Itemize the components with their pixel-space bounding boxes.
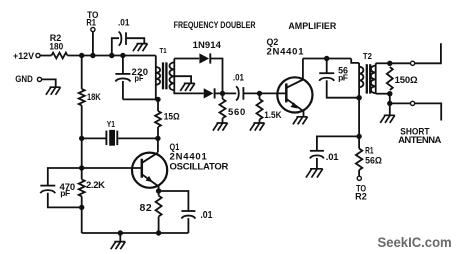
svg-text:OSCILLATOR: OSCILLATOR: [170, 162, 229, 173]
svg-text:FREQUENCY DOUBLER: FREQUENCY DOUBLER: [174, 20, 256, 31]
svg-text:2.2K: 2.2K: [86, 180, 105, 191]
svg-text:1N914: 1N914: [193, 40, 222, 51]
svg-text:AMPLIFIER: AMPLIFIER: [288, 21, 336, 32]
svg-text:.01: .01: [118, 17, 130, 28]
svg-text:.01: .01: [326, 152, 340, 163]
svg-text:T1: T1: [160, 46, 167, 55]
svg-text:560: 560: [228, 107, 245, 118]
svg-text:pF: pF: [60, 188, 70, 198]
svg-text:56Ω: 56Ω: [365, 156, 382, 167]
svg-text:180: 180: [49, 41, 63, 52]
svg-text:T2: T2: [363, 52, 373, 61]
svg-text:1.5K: 1.5K: [264, 110, 281, 121]
svg-text:GND: GND: [15, 74, 33, 85]
svg-text:82: 82: [140, 202, 152, 214]
svg-text:Y1: Y1: [107, 120, 116, 129]
svg-text:pF: pF: [135, 73, 144, 83]
svg-text:R1: R1: [86, 17, 96, 28]
svg-text:2N4401: 2N4401: [267, 47, 305, 58]
svg-text:SeekIC.com: SeekIC.com: [378, 234, 452, 250]
svg-text:R2: R2: [355, 191, 367, 202]
svg-text:ANTENNA: ANTENNA: [398, 135, 441, 146]
svg-text:150Ω: 150Ω: [395, 75, 418, 86]
svg-text:.01: .01: [200, 209, 212, 221]
svg-text:+12V: +12V: [13, 51, 35, 62]
svg-text:18K: 18K: [87, 92, 101, 103]
svg-text:pF: pF: [338, 73, 348, 83]
svg-text:15Ω: 15Ω: [164, 111, 180, 122]
svg-text:.01: .01: [233, 72, 245, 83]
